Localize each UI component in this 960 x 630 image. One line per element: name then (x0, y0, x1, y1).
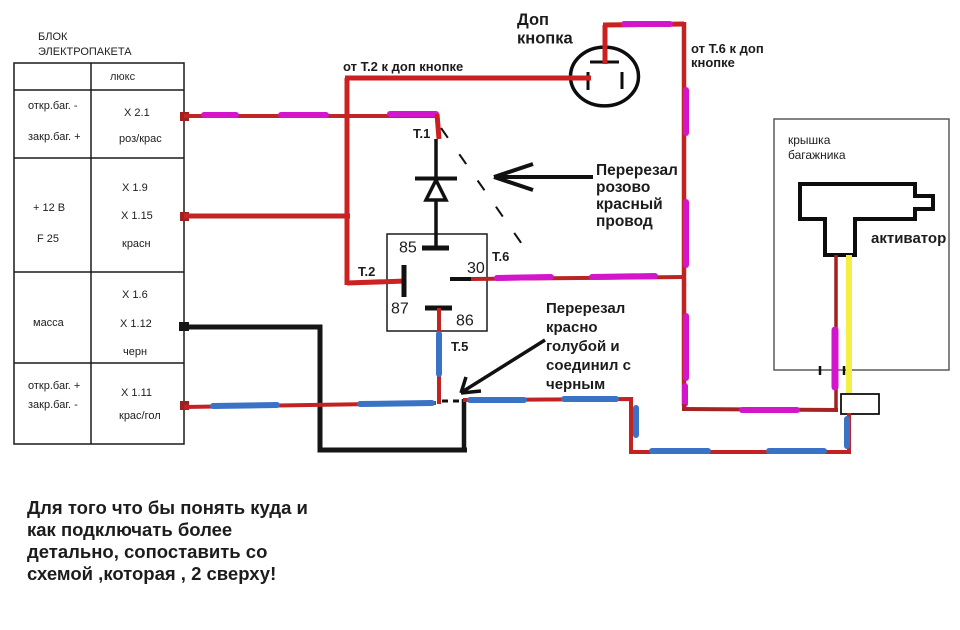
annotation Перерезал красно голубой и соединил с черным (546, 300, 631, 393)
svg-text:как подключать более: как подключать более (27, 519, 232, 540)
svg-text:детально, сопоставить со: детально, сопоставить со (27, 541, 267, 562)
svg-text:розово: розово (596, 179, 650, 196)
highlight magenta on роз/крас wire (204, 112, 236, 118)
svg-text:Х 1.12: Х 1.12 (120, 318, 152, 330)
svg-text:Т.6: Т.6 (492, 249, 509, 264)
relay pin 86 plate (425, 306, 452, 311)
svg-text:от Т.2 к доп кнопке: от Т.2 к доп кнопке (343, 59, 463, 74)
wire: red/blue from pin86 down (437, 308, 441, 404)
крышка багажника box (774, 119, 949, 370)
svg-text:откр.баг. -: откр.баг. - (28, 100, 78, 112)
svg-text:соединил с: соединил с (546, 357, 631, 374)
block title БЛОК ЭЛЕКТРОПАКЕТА (38, 31, 132, 58)
wire: T.2 riser red vertical x=347 and top run to button (345, 78, 589, 285)
annotation Перерезал розово красный провод (596, 162, 678, 230)
label Доп кнопка (517, 11, 574, 48)
diode D1 symbol (415, 179, 457, 201)
svg-text:активатор: активатор (871, 230, 946, 247)
wire: роз/крас row1 red horizontal to T.1 (180, 112, 439, 139)
bottom note text (27, 497, 308, 584)
svg-text:от Т.6 к доп: от Т.6 к доп (691, 41, 764, 56)
table row 3: масса X1.6 X1.12 черн (33, 289, 152, 358)
button circle Доп кнопка (571, 47, 639, 106)
svg-text:ЭЛЕКТРОПАКЕТА: ЭЛЕКТРОПАКЕТА (38, 46, 132, 58)
arrow pointing to diode area (494, 164, 593, 190)
wire red from button top to T.6 riser (603, 24, 684, 64)
svg-text:86: 86 (456, 313, 474, 330)
svg-text:откр.баг. +: откр.баг. + (28, 380, 80, 392)
svg-text:Т.2: Т.2 (358, 264, 375, 279)
svg-text:голубой и: голубой и (546, 338, 620, 355)
svg-text:красно: красно (546, 319, 598, 336)
svg-text:кнопке: кнопке (691, 55, 735, 70)
svg-text:F 25: F 25 (37, 233, 59, 245)
svg-text:черным: черным (546, 376, 605, 393)
relay pin T.2/87 vertical bar (402, 265, 407, 297)
tick marks where wires cross box edge (820, 366, 844, 375)
svg-text:+ 12 В: + 12 В (33, 202, 65, 214)
table row 2: +12В F25 X1.9 X1.15 красн (33, 182, 153, 250)
svg-text:Х 1.6: Х 1.6 (122, 289, 148, 301)
connector table (блок электропакета) (14, 63, 184, 444)
svg-text:роз/крас: роз/крас (119, 133, 162, 145)
label от Т.6 к доп кнопке (691, 41, 764, 70)
relay pin 30 (450, 277, 473, 281)
arrow to the cut/junction (461, 340, 545, 393)
svg-text:Х 2.1: Х 2.1 (124, 107, 150, 119)
svg-text:схемой ,которая , 2 сверху!: схемой ,которая , 2 сверху! (27, 563, 276, 584)
wire: +12V row2 red horizontal to riser (180, 212, 350, 221)
svg-text:провод: провод (596, 213, 653, 230)
svg-text:Т.1: Т.1 (413, 126, 430, 141)
svg-text:Х 1.15: Х 1.15 (121, 210, 153, 222)
svg-text:Доп: Доп (517, 11, 549, 29)
svg-text:Для того что бы понять куда и: Для того что бы понять куда и (27, 497, 308, 518)
svg-text:Перерезал: Перерезал (596, 162, 678, 179)
wire: yellow from activator stem down (846, 255, 852, 397)
svg-text:Х 1.9: Х 1.9 (122, 182, 148, 194)
svg-text:87: 87 (391, 301, 409, 318)
svg-text:85: 85 (399, 240, 417, 257)
svg-text:люкс: люкс (110, 71, 136, 83)
table row 1: откр.баг./закр.баг. X2.1 роз/крас (28, 100, 162, 145)
relay pin 85 plate (422, 246, 449, 251)
svg-text:крас/гол: крас/гол (119, 410, 161, 422)
svg-text:закр.баг. -: закр.баг. - (28, 399, 78, 411)
svg-text:закр.баг. +: закр.баг. + (28, 131, 81, 143)
wire: крас/гол row4 horizontal with blue highlights (180, 401, 436, 410)
table row 4: откр.баг.+ закр.баг.- X1.11 крас/гол (28, 380, 161, 422)
node T.1 red stub (437, 114, 439, 139)
svg-text:красн: красн (122, 238, 151, 250)
wire: red from activator stem down (835, 255, 836, 410)
svg-text:багажника: багажника (788, 148, 846, 162)
svg-text:масса: масса (33, 317, 65, 329)
svg-text:Х 1.11: Х 1.11 (121, 387, 152, 399)
wire red into button from left (347, 76, 591, 81)
activator shape (800, 184, 933, 255)
dashed cut on крас/гол wire (442, 400, 459, 403)
svg-text:БЛОК: БЛОК (38, 31, 68, 43)
svg-text:красный: красный (596, 196, 663, 213)
svg-text:Перерезал: Перерезал (546, 300, 625, 317)
diode wire black vertical from T.1 to pin85 (434, 139, 438, 248)
svg-text:Т.5: Т.5 (451, 339, 468, 354)
svg-text:крышка: крышка (788, 133, 831, 147)
svg-text:кнопка: кнопка (517, 30, 574, 48)
wire: black масса from row3 (179, 322, 467, 450)
wire: continues right of cut, red with blue, elbow down and to connector (463, 399, 849, 452)
wire: T.6 riser bottom elbow to activator (682, 404, 838, 410)
connector rectangle near activator (841, 394, 879, 414)
wire: T.6 riser vertical x=684 down (684, 22, 686, 406)
svg-text:30: 30 (467, 260, 485, 277)
wire: pin30 to T.6 riser (471, 276, 685, 279)
relay box (387, 234, 487, 331)
dashed cut line across розово-красный wire (441, 128, 524, 247)
svg-text:черн: черн (123, 346, 147, 358)
